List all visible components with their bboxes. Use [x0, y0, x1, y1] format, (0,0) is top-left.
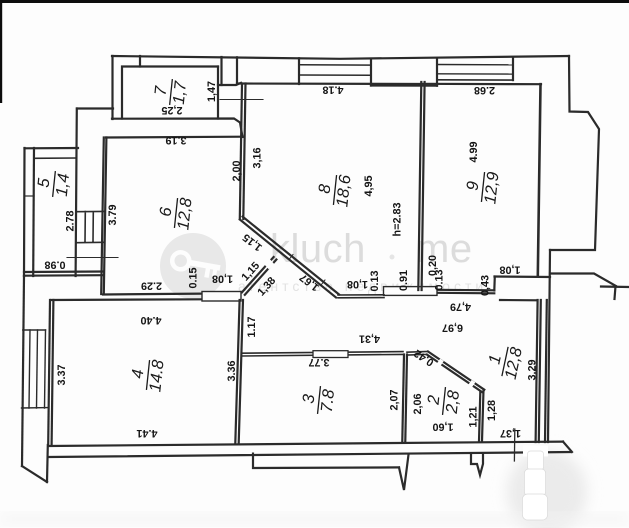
svg-text:1,28: 1,28 [486, 400, 498, 421]
room 8 left wall (double) [240, 84, 242, 220]
pier between windows [371, 84, 437, 86]
wall: top exterior [112, 56, 569, 59]
step at x494 [493, 277, 496, 291]
svg-text:4,95: 4,95 [363, 175, 375, 196]
wall band y296 x338-435 [338, 294, 384, 296]
scan border top [0, 0, 629, 3]
room 7 top cell divider [139, 56, 141, 67]
svg-text:12,8: 12,8 [174, 196, 195, 231]
threshold box room 3 door [313, 351, 348, 358]
room 7 label [151, 77, 191, 107]
svg-text:2,8: 2,8 [443, 389, 463, 416]
svg-text:2.78: 2.78 [65, 210, 77, 231]
long wall x=550 [548, 250, 550, 442]
svg-text:0.13: 0.13 [434, 269, 446, 290]
scan border left [0, 0, 2, 103]
svg-text:2,00: 2,00 [231, 160, 243, 181]
room 7 outer left wall [111, 56, 113, 119]
below-wall step left [253, 454, 399, 468]
svg-text:1,60: 1,60 [432, 421, 453, 433]
room 9 top wall [421, 83, 541, 86]
svg-text:18,6: 18,6 [333, 173, 354, 208]
room 5 label [34, 169, 74, 199]
svg-text:4.99: 4.99 [468, 141, 480, 162]
svg-text:2.68: 2.68 [474, 84, 495, 96]
window B (2.68) [437, 64, 513, 66]
room 6 bottom wall [103, 293, 202, 296]
balcony window ticks [23, 329, 46, 331]
svg-text:4: 4 [129, 368, 148, 379]
svg-text:4.41: 4.41 [136, 427, 157, 439]
canopy chamfer [563, 442, 572, 452]
svg-text:1,08: 1,08 [212, 273, 233, 285]
svg-text:1,08: 1,08 [499, 264, 520, 276]
room 9 label [462, 169, 502, 205]
room 7 outer bottom wall [112, 119, 243, 138]
svg-text:1,21: 1,21 [468, 406, 480, 427]
right wall small stub down [615, 286, 616, 299]
door gap on cross diagonal [264, 259, 274, 269]
neighbour wall stub right [601, 285, 629, 288]
room 6 left wall (double) [101, 138, 104, 295]
room 7 inner walls [122, 67, 218, 119]
svg-text:2: 2 [425, 394, 444, 406]
diagonal joint ticks [289, 255, 293, 260]
divider rooms 3/2 (double) [402, 355, 404, 442]
pier V below divider [399, 454, 409, 490]
svg-text:3.19: 3.19 [165, 134, 186, 146]
svg-text:0.15: 0.15 [188, 267, 200, 288]
svg-text:3.36: 3.36 [226, 360, 238, 381]
svg-text:6,97: 6,97 [442, 322, 463, 334]
svg-text:2,07: 2,07 [389, 389, 401, 410]
room 2 right wall (double) [482, 390, 484, 441]
room 3 label [299, 384, 339, 416]
below-wall step right [471, 453, 483, 475]
svg-text:7.8: 7.8 [318, 388, 338, 414]
threshold box corridor/hall [384, 287, 438, 296]
room 1 label [483, 341, 526, 381]
svg-text:3.37: 3.37 [56, 364, 68, 385]
svg-text:0.91: 0.91 [398, 270, 410, 291]
svg-text:4,79: 4,79 [450, 301, 471, 313]
room 7 right wall [217, 67, 219, 119]
bottom haze [0, 515, 629, 523]
room 2 diagonal wall (double) [428, 352, 484, 390]
svg-text:2,25: 2,25 [161, 104, 182, 116]
room 6 top wall [106, 136, 243, 139]
svg-text:0.98: 0.98 [44, 259, 65, 271]
room 2 top wall (double) [407, 351, 428, 354]
svg-text:1,47: 1,47 [206, 81, 218, 102]
svg-text:2,06: 2,06 [412, 393, 424, 414]
room 4 left wall (double) [48, 300, 50, 445]
room 2 diagonal joint slits [436, 359, 475, 389]
top window band start [236, 57, 238, 83]
watermark key circle logo [160, 233, 226, 299]
staircase bottom wall (double) [24, 270, 103, 273]
right exterior wall [550, 56, 599, 250]
svg-text:14.8: 14.8 [146, 358, 167, 393]
divider wall rooms 8/9 (double) [418, 82, 421, 290]
wall y291 (double) [437, 289, 494, 292]
dim line 0.98 [67, 257, 118, 259]
svg-text:4,31: 4,31 [359, 333, 380, 345]
room 5 left wall (double) [23, 148, 26, 276]
balcony inner wall lower [46, 445, 49, 482]
svg-text:3.29: 3.29 [527, 359, 539, 380]
room 8 top wall [237, 82, 421, 85]
svg-text:h=2.83: h=2.83 [392, 203, 404, 237]
svg-text:12,9: 12,9 [481, 171, 502, 205]
svg-text:1,37: 1,37 [500, 427, 521, 439]
room 7 right outer wall [220, 57, 222, 85]
svg-text:2.29: 2.29 [141, 280, 162, 292]
bottom right gray haze [507, 450, 587, 528]
room 5 top wall [25, 147, 79, 150]
door jamb room 7 [218, 83, 241, 85]
svg-text:3,16: 3,16 [252, 147, 264, 168]
left balcony outer wall [22, 276, 24, 466]
room 4 top wall [51, 298, 202, 301]
right exterior notch lower [550, 274, 616, 287]
staircase upper boundary [77, 107, 113, 109]
svg-text:1,4: 1,4 [53, 173, 73, 198]
svg-text:3.77: 3.77 [308, 356, 329, 368]
room 4 right wall (double) [235, 300, 239, 443]
balcony diagonal corner [22, 466, 47, 482]
room 8 label [314, 171, 354, 208]
svg-text:1.17: 1.17 [246, 316, 258, 337]
room 5 left wall tick [25, 195, 35, 197]
stairs ladder [77, 211, 104, 242]
window A (4.18) [298, 58, 300, 84]
bottom exterior wall upper line [49, 442, 563, 446]
room 9 bottom wall [495, 275, 551, 278]
svg-text:me: me [416, 227, 473, 271]
hall right thick wall [539, 300, 541, 442]
corridor cross diagonal (double) [242, 257, 274, 292]
bottom exterior wall lower line [49, 452, 571, 457]
balcony window verticals [29, 330, 30, 408]
room 2 label [424, 385, 464, 417]
svg-text:1,7: 1,7 [170, 80, 190, 106]
room 3 top wall (double) [242, 354, 403, 356]
bottom right white figure [523, 446, 549, 521]
room 6 label [155, 194, 195, 231]
hall top wall [500, 299, 537, 301]
svg-text:9: 9 [464, 180, 483, 191]
room 4 label [127, 356, 167, 393]
diagonal wall room 8 corner (double) [240, 220, 336, 298]
svg-text:0.13: 0.13 [369, 270, 381, 291]
svg-text:1,08: 1,08 [347, 278, 368, 290]
dim line 1.47 [220, 99, 263, 101]
svg-text:4.40: 4.40 [140, 314, 161, 326]
room 9 right wall (double) [538, 84, 541, 276]
svg-text:3.79: 3.79 [107, 204, 119, 225]
svg-text:4.18: 4.18 [322, 84, 343, 96]
door opening rect rooms 6/4 corridor [202, 292, 241, 302]
staircase left wall [76, 109, 77, 277]
svg-text:0,43: 0,43 [480, 275, 492, 296]
dim tick 1,37 [513, 429, 515, 461]
